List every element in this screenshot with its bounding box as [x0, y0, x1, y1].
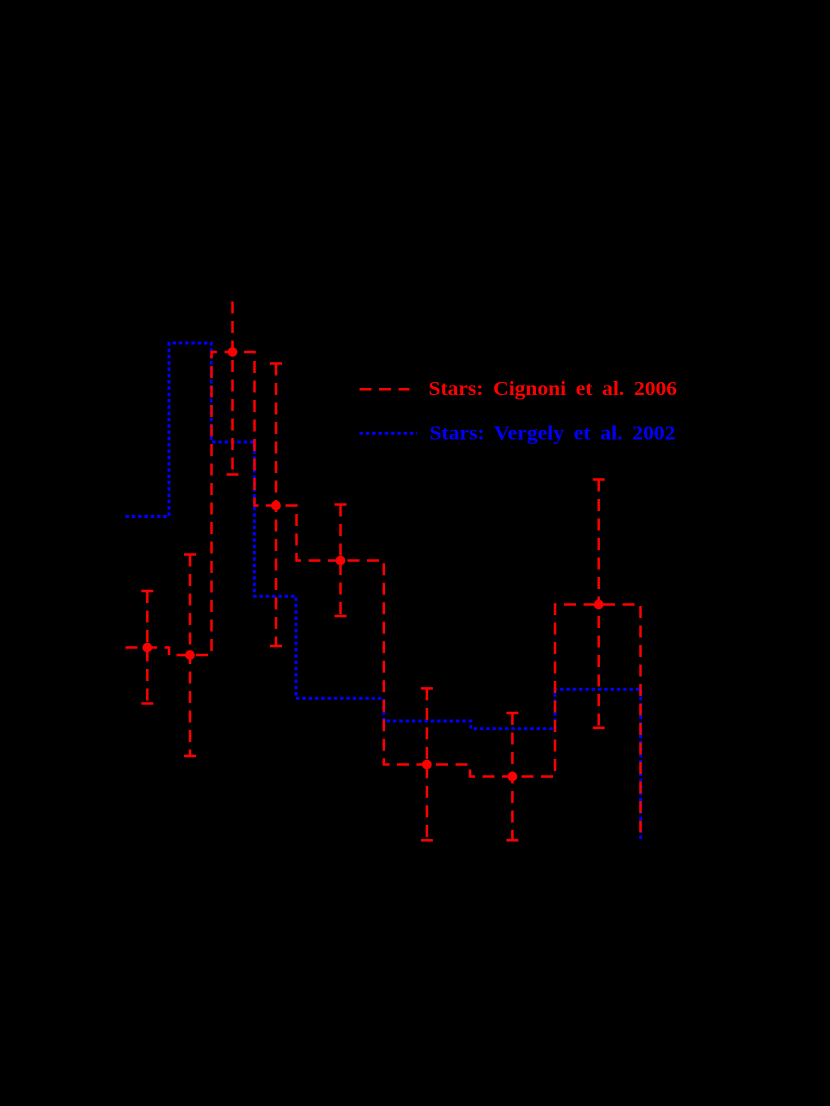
red error bar 4: [270, 364, 282, 647]
svg-text:Stars: Cignoni et al. 2006: Stars: Cignoni et al. 2006: [429, 378, 678, 400]
blue histogram: Vergely et al. 2002 (dotted step): [126, 343, 641, 839]
red error bar 5: [335, 505, 347, 617]
legend blue sample line: [360, 432, 418, 435]
svg-text:Stars: Vergely et al. 2002: Stars: Vergely et al. 2002: [430, 423, 676, 445]
red error bar 6: [421, 688, 433, 840]
legend red sample line: [360, 388, 410, 391]
red error bar 7: [506, 713, 518, 840]
red error bar 3 (top clipped, no top cap): [227, 302, 239, 475]
red error bar 8: [593, 480, 605, 728]
red histogram: Cignoni et al. 2006 (dashed step): [126, 352, 641, 835]
red error bar 2: [184, 555, 196, 757]
red data points: [142, 347, 603, 781]
red error bar 1: [141, 591, 153, 704]
